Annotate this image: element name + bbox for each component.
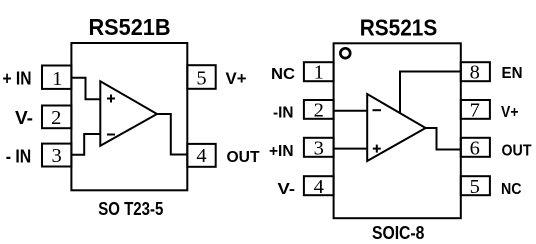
- svg-text:RS521S: RS521S: [360, 15, 438, 41]
- svg-text:- IN: - IN: [6, 147, 32, 167]
- svg-text:4: 4: [314, 176, 324, 198]
- svg-text:V-: V-: [15, 108, 33, 128]
- svg-text:5: 5: [470, 176, 480, 198]
- svg-text:2: 2: [51, 107, 61, 129]
- svg-text:SOIC-8: SOIC-8: [372, 222, 425, 243]
- svg-text:OUT: OUT: [227, 149, 260, 166]
- svg-text:SO T23-5: SO T23-5: [98, 198, 163, 219]
- svg-text:RS521B: RS521B: [89, 14, 171, 40]
- svg-text:EN: EN: [502, 65, 523, 82]
- svg-text:NC: NC: [501, 181, 522, 198]
- svg-text:V+: V+: [501, 104, 519, 121]
- svg-text:+IN: +IN: [269, 143, 294, 160]
- svg-text:3: 3: [51, 145, 61, 167]
- svg-text:7: 7: [470, 100, 480, 122]
- svg-text:4: 4: [196, 145, 206, 167]
- svg-text:OUT: OUT: [502, 143, 532, 160]
- svg-text:1: 1: [314, 62, 324, 84]
- svg-text:2: 2: [314, 100, 324, 122]
- svg-text:V-: V-: [278, 181, 296, 198]
- svg-text:8: 8: [470, 62, 480, 84]
- svg-text:V+: V+: [226, 69, 247, 88]
- svg-text:6: 6: [470, 138, 480, 160]
- svg-text:-IN: -IN: [273, 105, 294, 122]
- svg-text:+ IN: + IN: [3, 69, 32, 89]
- svg-text:5: 5: [196, 68, 206, 90]
- svg-text:NC: NC: [271, 66, 295, 83]
- svg-text:1: 1: [52, 68, 62, 90]
- svg-text:3: 3: [314, 138, 324, 160]
